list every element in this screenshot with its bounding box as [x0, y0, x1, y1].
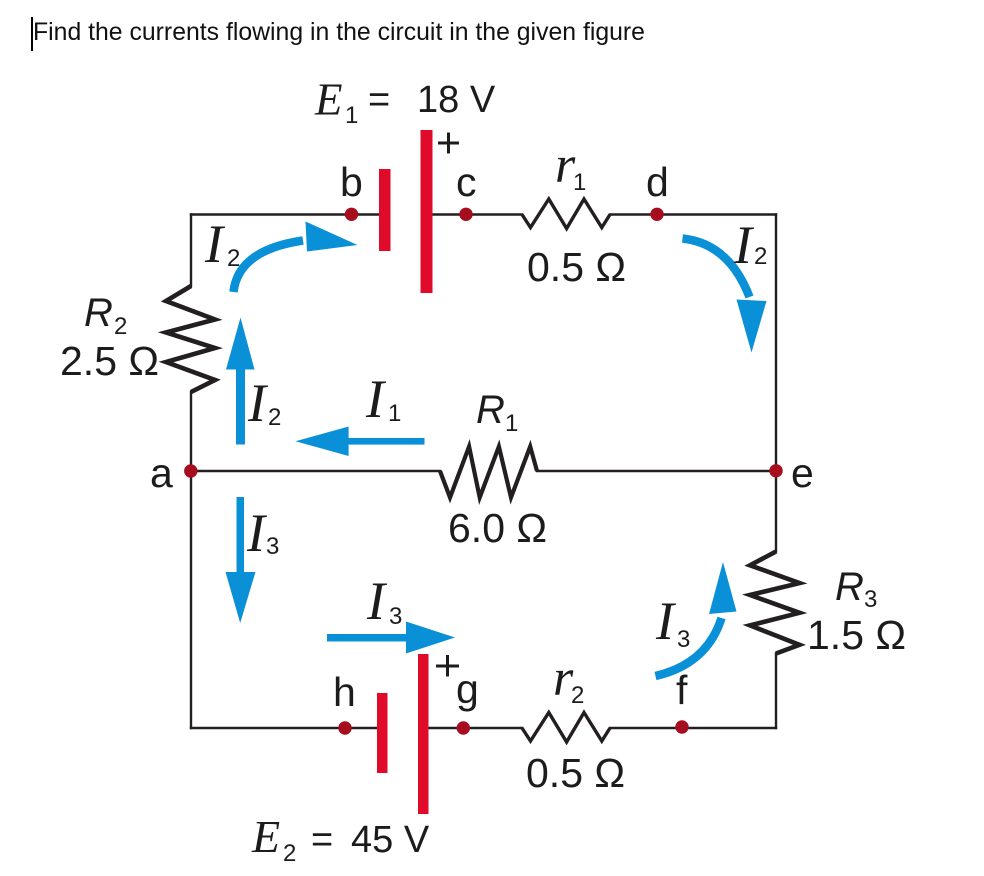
title text [33, 21, 645, 46]
svg-text:0.5 Ω: 0.5 Ω [526, 750, 625, 796]
svg-text:E: E [251, 811, 280, 862]
wire right upper segment [775, 215, 777, 552]
wire top-left from corner to battery [191, 213, 379, 215]
wire middle left (a to R1) [191, 470, 440, 472]
svg-text:1: 1 [388, 400, 401, 427]
wire middle right (R1 to e) [537, 470, 776, 472]
wire bottom-left from corner to battery [191, 727, 377, 729]
svg-text:3: 3 [864, 586, 877, 613]
svg-text:1.5 Ω: 1.5 Ω [807, 612, 906, 658]
svg-text:1: 1 [573, 169, 586, 196]
wire right lower segment [775, 654, 777, 729]
battery E2 tall plate (positive) [418, 654, 429, 814]
resistor R2 2.5 ohm (left) [166, 286, 215, 392]
svg-text:a: a [150, 450, 173, 496]
battery E1 tall plate (positive) [421, 130, 433, 293]
plus sign top battery [438, 133, 459, 154]
svg-text:I: I [246, 503, 268, 563]
node b [345, 208, 358, 221]
svg-text:2: 2 [268, 404, 281, 431]
svg-text:I: I [365, 369, 387, 429]
current arrow I2 curved (top left) [234, 241, 304, 293]
resistor r2 0.5 ohm (bottom) [522, 713, 610, 743]
svg-text:2.5 Ω: 2.5 Ω [60, 338, 159, 384]
current arrow I1 straight left (middle) [348, 438, 425, 445]
svg-text:2: 2 [227, 245, 240, 272]
svg-text:=: = [311, 819, 333, 861]
node f [675, 720, 688, 733]
svg-text:I: I [733, 215, 755, 275]
svg-text:=: = [368, 79, 390, 121]
current arrow I3 straight down (below a) [237, 497, 245, 573]
svg-text:3: 3 [677, 626, 690, 653]
svg-text:3: 3 [266, 533, 279, 560]
svg-text:3: 3 [389, 603, 402, 630]
svg-text:18 V: 18 V [417, 79, 496, 121]
svg-text:c: c [456, 159, 477, 205]
node d [650, 208, 663, 221]
svg-text:R: R [476, 388, 505, 432]
svg-text:0.5 Ω: 0.5 Ω [527, 244, 626, 290]
svg-text:I: I [204, 214, 226, 274]
wire left upper segment [190, 215, 192, 287]
svg-text:R: R [84, 291, 113, 335]
svg-text:e: e [791, 450, 814, 496]
text cursor [31, 17, 33, 51]
svg-text:b: b [340, 159, 363, 205]
svg-text:h: h [333, 669, 356, 715]
svg-text:1: 1 [505, 410, 518, 437]
svg-text:I: I [655, 591, 677, 651]
current arrow I2 straight up (left) [236, 367, 245, 445]
node a [184, 464, 197, 477]
svg-text:E: E [314, 75, 343, 125]
current arrow I3 curved (bottom right) [656, 618, 722, 676]
svg-text:45 V: 45 V [351, 819, 430, 861]
svg-text:2: 2 [283, 840, 296, 867]
resistor R3 1.5 ohm (right) [750, 552, 800, 654]
plus sign bottom battery [436, 655, 459, 677]
current arrow I3 straight right (bottom middle) [327, 634, 407, 642]
current arrow I2 curved (top right) [683, 239, 750, 298]
svg-text:6.0 Ω: 6.0 Ω [448, 505, 547, 551]
battery E2 short plate (negative) [377, 693, 388, 773]
svg-text:2: 2 [754, 243, 767, 270]
svg-text:f: f [676, 667, 688, 713]
node e [769, 464, 782, 477]
wire top after r1 to corner [610, 213, 776, 215]
node h [338, 721, 351, 734]
battery E1 short plate (negative) [379, 169, 391, 251]
svg-text:R: R [835, 565, 864, 609]
svg-text:1: 1 [345, 102, 358, 129]
wire bottom between battery and r2 [429, 727, 522, 729]
wire left lower segment [190, 392, 192, 728]
svg-text:I: I [247, 373, 269, 433]
resistor R1 6.0 ohm (middle) [440, 447, 537, 498]
svg-text:I: I [366, 571, 388, 631]
node c [459, 208, 472, 221]
svg-text:d: d [646, 159, 669, 205]
svg-text:2: 2 [114, 313, 127, 340]
svg-text:g: g [456, 666, 479, 712]
wire top-right from battery to corner [432, 213, 522, 215]
resistor r1 0.5 ohm (top) [522, 199, 610, 229]
wire bottom after r2 to corner [610, 727, 776, 729]
node g [457, 721, 470, 734]
svg-text:2: 2 [571, 682, 584, 709]
